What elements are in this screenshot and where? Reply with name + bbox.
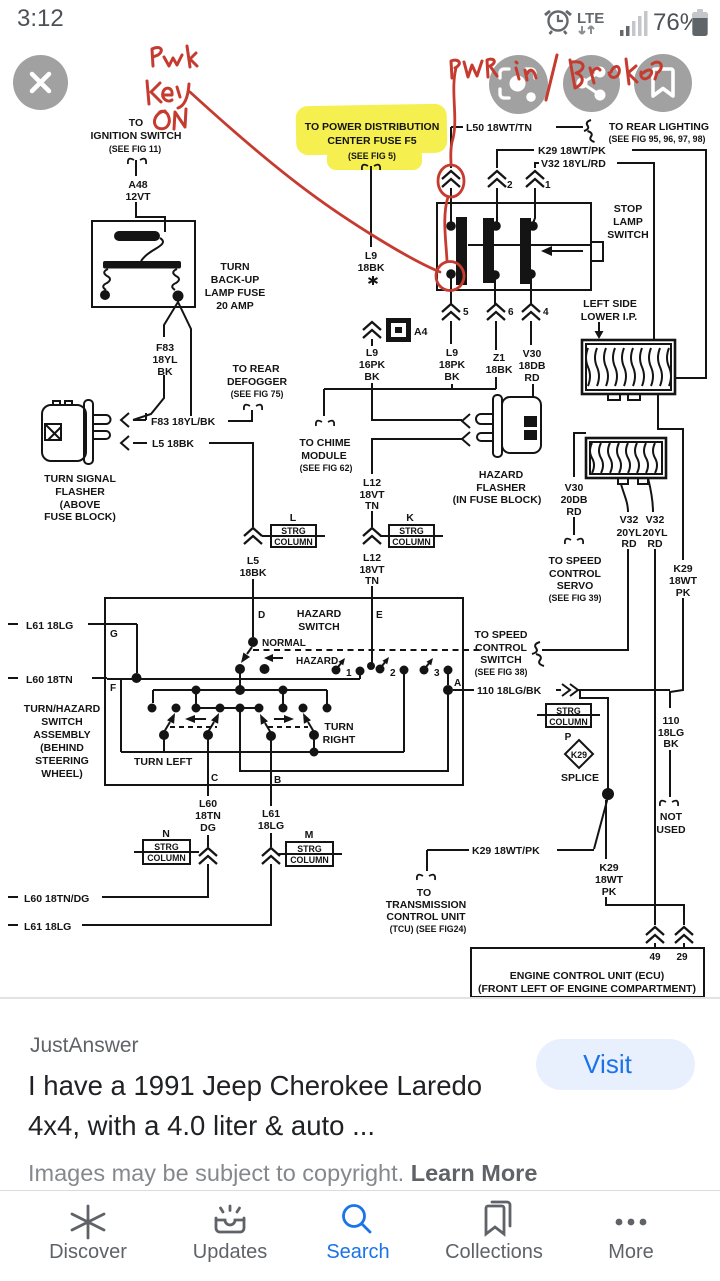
label: to chime module	[299, 437, 352, 473]
label: left side lower IP	[581, 298, 637, 323]
wire V32 18YL/RD from switch	[535, 163, 539, 168]
svg-text:FLASHER: FLASHER	[55, 486, 105, 498]
svg-text:SWITCH: SWITCH	[480, 654, 521, 666]
turn left arm 2 (C pole)	[203, 713, 219, 740]
wire from hazard contact 1 to row 1	[359, 671, 361, 679]
svg-text:CONTROL: CONTROL	[549, 568, 601, 580]
wire K29 18WT/PK to TCU	[427, 849, 594, 851]
wire L5 18BK row	[133, 442, 147, 444]
connector L on L5 wire	[244, 528, 262, 544]
contact dot E	[367, 662, 375, 670]
svg-text:18WT: 18WT	[595, 874, 624, 886]
turn right arm 1 (B pole)	[260, 714, 276, 741]
svg-text:BK: BK	[444, 371, 460, 383]
wire label L60 18TN/DG row	[8, 893, 89, 905]
wire B to L61 row	[82, 864, 271, 925]
actuator tab	[591, 242, 603, 261]
connector on flasher pin 1	[121, 413, 129, 427]
svg-text:K: K	[406, 512, 414, 524]
turn signal flasher body	[42, 405, 86, 461]
red slash	[546, 55, 557, 100]
lower IP connector block 2	[586, 438, 666, 484]
svg-text:PK: PK	[602, 886, 617, 898]
svg-text:K29: K29	[571, 750, 587, 760]
hazard contact pair 3	[420, 658, 453, 675]
wire E into switch	[371, 598, 373, 664]
wire L50 to stop lamp switch	[451, 127, 463, 168]
svg-text:B: B	[274, 775, 281, 786]
svg-text:L60 18TN: L60 18TN	[26, 674, 73, 686]
svg-text:18YL: 18YL	[152, 354, 178, 366]
connector 6	[487, 304, 505, 320]
svg-text:4: 4	[543, 307, 549, 318]
wire L9 from power distribution	[370, 166, 372, 247]
svg-text:TURN/HAZARD: TURN/HAZARD	[24, 703, 101, 715]
flasher pin 2	[93, 431, 110, 439]
wire label L9 18BK	[358, 250, 385, 274]
red handwriting Pwr	[152, 46, 197, 67]
svg-text:F83 18YL/BK: F83 18YL/BK	[151, 416, 216, 428]
label: turn right	[323, 721, 356, 746]
wire label L61 18LG row	[8, 921, 71, 933]
svg-text:TO SPEED: TO SPEED	[475, 629, 528, 641]
red circle around switch dot	[436, 262, 464, 291]
svg-text:L12: L12	[363, 477, 381, 489]
fuse terminal dot left	[100, 290, 110, 300]
wire stubs into ECU	[655, 943, 684, 948]
connector to power distribution center	[362, 165, 380, 170]
wire into fuse box	[136, 202, 165, 222]
wire from junction down	[605, 800, 607, 859]
label: to speed control switch	[475, 629, 528, 677]
svg-text:LAMP FUSE: LAMP FUSE	[205, 287, 265, 299]
svg-text:2: 2	[507, 180, 513, 191]
wire stub not used	[669, 750, 671, 797]
wire 110 to not-used stub	[578, 689, 670, 691]
svg-text:RD: RD	[566, 506, 582, 518]
svg-text:SPLICE: SPLICE	[561, 772, 599, 784]
splice symbol K29	[565, 740, 593, 768]
svg-text:HAZARD: HAZARD	[297, 608, 342, 620]
connector C on L9 wire	[363, 322, 381, 338]
svg-text:5: 5	[463, 307, 469, 318]
wire L12 into hazard switch E	[371, 586, 373, 598]
svg-text:L60: L60	[199, 798, 217, 810]
wire B down from pole	[270, 740, 272, 785]
turn/hazard switch assembly box	[105, 598, 463, 785]
label: to rear lighting	[609, 121, 709, 144]
junction dot on bottom row	[310, 748, 319, 757]
connector ECU pin 29	[675, 927, 693, 943]
svg-text:P: P	[565, 732, 572, 743]
bottom result card	[0, 998, 720, 1190]
svg-text:COLUMN: COLUMN	[290, 855, 329, 865]
svg-text:RIGHT: RIGHT	[323, 734, 356, 746]
label: not used	[656, 811, 686, 836]
wire from D contact to row 2	[239, 673, 241, 686]
svg-text:ASSEMBLY: ASSEMBLY	[33, 729, 90, 741]
svg-text:SWITCH: SWITCH	[41, 716, 82, 728]
svg-text:LTE: LTE	[577, 10, 604, 27]
svg-text:18BK: 18BK	[240, 567, 267, 579]
svg-text:(FRONT LEFT OF ENGINE COMPARTM: (FRONT LEFT OF ENGINE COMPARTMENT)	[478, 983, 696, 995]
svg-text:HAZARD: HAZARD	[296, 656, 338, 667]
svg-text:STRG: STRG	[154, 842, 179, 852]
bottom navigation	[0, 1190, 720, 1281]
svg-text:20 AMP: 20 AMP	[216, 300, 254, 312]
lens button	[489, 55, 548, 114]
dashed travel line hazard row	[253, 649, 480, 651]
hazard flasher pin 2	[477, 433, 493, 441]
svg-text:G: G	[110, 629, 118, 640]
svg-text:(SEE FIG 39): (SEE FIG 39)	[549, 593, 602, 603]
wire label F83 18YL BK (vertical run)	[152, 342, 178, 378]
wire F83 from fuse to flasher	[133, 296, 178, 420]
svg-text:CENTER FUSE F5: CENTER FUSE F5	[327, 135, 416, 147]
svg-text:STEERING: STEERING	[35, 755, 89, 767]
svg-text:(SEE FIG 5): (SEE FIG 5)	[348, 151, 396, 161]
svg-text:29: 29	[676, 952, 688, 963]
connector for hazard flasher pin 2	[462, 432, 470, 446]
wire C to L60 row	[102, 864, 208, 897]
svg-text:110 18LG/BK: 110 18LG/BK	[477, 685, 542, 697]
svg-text:CONTROL UNIT: CONTROL UNIT	[386, 911, 466, 923]
svg-text:CONTROL: CONTROL	[475, 642, 527, 654]
svg-text:A48: A48	[128, 179, 147, 191]
steering column pass-through N	[134, 828, 199, 864]
normal position dot	[260, 664, 270, 674]
svg-text:(TCU) (SEE FIG24): (TCU) (SEE FIG24)	[390, 924, 467, 934]
svg-text:TO: TO	[417, 887, 431, 899]
wires out of switch bottom	[451, 274, 531, 305]
wire V32 to lower IP connector top	[617, 163, 654, 340]
connector 2 on switch wire	[488, 171, 506, 187]
svg-text:STOP: STOP	[614, 203, 642, 215]
wire branch down to splice	[580, 690, 608, 789]
svg-text:Z1: Z1	[493, 352, 505, 364]
svg-text:D: D	[258, 610, 265, 621]
wire B to L61 chevron	[270, 785, 272, 847]
switch terminal dots bottom	[446, 269, 456, 279]
connector N on C wire	[199, 848, 217, 864]
red handwriting Brake?	[570, 59, 661, 88]
stub arm1 to bottom row	[163, 738, 165, 752]
wire label L9 16PK BK	[359, 347, 386, 383]
connector M on B wire	[262, 848, 280, 864]
connector to speed control switch	[532, 642, 544, 666]
svg-text:C: C	[211, 773, 218, 784]
connector 1 on switch wire	[526, 171, 544, 187]
svg-text:(IN FUSE BLOCK): (IN FUSE BLOCK)	[453, 494, 542, 506]
wire from F83 row to rear defogger	[228, 410, 252, 421]
row 2 wire	[153, 690, 327, 704]
wire F83 18YL/BK row	[133, 413, 146, 420]
svg-text:ENGINE CONTROL UNIT (ECU): ENGINE CONTROL UNIT (ECU)	[510, 970, 664, 982]
red link between circles	[445, 197, 448, 261]
svg-text:TURN: TURN	[220, 261, 249, 273]
svg-text:TO CHIME: TO CHIME	[299, 437, 350, 449]
svg-text:LOWER I.P.: LOWER I.P.	[581, 311, 637, 323]
svg-text:STRG: STRG	[281, 526, 306, 536]
connector to ignition switch (see fig 11)	[128, 159, 146, 164]
svg-text:TN: TN	[365, 575, 379, 587]
svg-text:L61 18LG: L61 18LG	[24, 921, 71, 933]
turn left arm 1	[159, 713, 175, 740]
svg-text:L9: L9	[365, 250, 377, 262]
connector 4	[522, 304, 540, 320]
label: to transmission control unit	[386, 887, 467, 934]
wire label L12 18VT TN below connector	[359, 552, 385, 587]
svg-text:TO: TO	[129, 117, 143, 129]
connector 3 on L50 wire	[442, 171, 460, 187]
wire from lower IP connector bottom	[658, 394, 683, 560]
svg-text:RD: RD	[647, 538, 663, 550]
svg-text:18DB: 18DB	[519, 360, 546, 372]
red wavy line down from PWR	[451, 68, 456, 164]
normal switch arm with arrow	[241, 647, 252, 663]
wire G down to row 1	[136, 624, 138, 673]
svg-text:COLUMN: COLUMN	[274, 537, 313, 547]
svg-text:K29: K29	[599, 862, 618, 874]
switch terminal dots top	[446, 221, 456, 231]
connector to speed control servo	[565, 539, 583, 544]
wire C to L60 chevron	[207, 785, 209, 847]
terminal dot A	[443, 685, 453, 695]
svg-text:K29: K29	[673, 563, 692, 575]
svg-text:18TN: 18TN	[195, 810, 221, 822]
svg-text:V32: V32	[646, 514, 665, 526]
turn right arm 2	[303, 713, 319, 740]
fuse F4 box: turn back-up lamp fuse	[92, 221, 195, 307]
fuse element squiggle	[141, 222, 165, 261]
svg-text:L5 18BK: L5 18BK	[152, 438, 194, 450]
wire branch from fuse to F83 18YL/BK row	[178, 302, 191, 416]
connector K on L12 wire	[363, 528, 381, 544]
wire L5 to hazard switch D	[209, 443, 253, 527]
svg-text:16PK: 16PK	[359, 359, 386, 371]
stop lamp switch box	[437, 203, 591, 290]
stub arm to bottom row	[313, 738, 315, 752]
yellow highlight marker	[296, 104, 448, 170]
connector to rear defogger	[244, 405, 262, 410]
wire L5 into hazard switch D	[252, 579, 254, 598]
wire V30 18DB RD below connector 4	[531, 321, 533, 397]
stubs row2 to contacts	[196, 690, 283, 704]
svg-text:TRANSMISSION: TRANSMISSION	[386, 899, 467, 911]
svg-text:F83: F83	[156, 342, 174, 354]
svg-text:E: E	[376, 610, 383, 621]
steering column pass-through P	[537, 704, 600, 743]
steering column pass-through L	[262, 512, 325, 547]
wire V32 right from connector 2	[648, 478, 653, 512]
wire label 110 18LG BK	[658, 715, 684, 750]
fuse top contact bar	[114, 231, 160, 241]
wire label L9 18PK BK	[439, 347, 466, 383]
bus wire joining L9 L9 Z1	[324, 388, 496, 390]
wire from hazard contact 2 to bottom row	[403, 673, 405, 752]
switch contact bar 3	[520, 218, 531, 284]
svg-text:IGNITION SWITCH: IGNITION SWITCH	[91, 130, 182, 142]
svg-text:USED: USED	[656, 824, 686, 836]
wire label L5 18BK above switch	[240, 555, 267, 579]
wire from contact 240 to terminal A loop	[240, 694, 448, 771]
svg-text:12VT: 12VT	[125, 191, 151, 203]
svg-text:TURN SIGNAL: TURN SIGNAL	[44, 473, 116, 485]
svg-text:L: L	[290, 512, 297, 524]
wire F inside box	[120, 679, 122, 752]
svg-text:K29 18WT/PK: K29 18WT/PK	[538, 145, 606, 157]
wire K29 to lower IP connector	[632, 150, 706, 378]
wire label V30 20DB RD	[561, 482, 588, 518]
svg-text:FLASHER: FLASHER	[476, 482, 526, 494]
wire label L12 18VT TN	[359, 477, 385, 512]
share button	[563, 55, 620, 112]
actuator arrow	[541, 246, 583, 256]
switch contact bar 1	[456, 217, 467, 285]
wire label L61 18LG	[258, 808, 284, 832]
connector on flasher pin 2	[121, 436, 129, 450]
svg-text:N: N	[162, 828, 170, 840]
svg-text:BACK-UP: BACK-UP	[211, 274, 259, 286]
turn left direction arrow	[185, 715, 206, 723]
normal direction arrow	[264, 654, 283, 662]
contact dot D	[248, 637, 258, 647]
svg-text:TURN: TURN	[324, 721, 353, 733]
contact dots row 3	[148, 704, 332, 713]
wire label A48 12VT	[125, 179, 151, 203]
label: hazard switch	[297, 608, 342, 633]
svg-text:RD: RD	[524, 372, 540, 384]
wire L12 from hazard flasher pin 2	[372, 439, 462, 474]
label: turn/hazard switch assembly	[24, 703, 101, 780]
svg-text:(BEHIND: (BEHIND	[40, 742, 84, 754]
label: to rear defogger	[227, 363, 288, 399]
svg-text:MODULE: MODULE	[301, 450, 347, 462]
connector to TCU	[417, 875, 435, 880]
svg-text:M: M	[305, 829, 314, 841]
status bar	[0, 0, 720, 40]
svg-text:3: 3	[434, 668, 440, 679]
svg-text:TO POWER DISTRIBUTION: TO POWER DISTRIBUTION	[305, 121, 440, 133]
connector end not used	[660, 801, 678, 806]
svg-text:TO SPEED: TO SPEED	[549, 555, 602, 567]
svg-text:NORMAL: NORMAL	[262, 638, 306, 649]
connector arrows on 110 wire	[562, 684, 578, 696]
svg-text:F: F	[110, 683, 116, 694]
svg-text:STRG: STRG	[556, 706, 581, 716]
svg-text:49: 49	[649, 952, 661, 963]
hazard contact pair 1	[332, 658, 365, 676]
wire C down from pole	[207, 739, 209, 785]
fuse coil left	[103, 269, 110, 290]
steering column pass-through M	[277, 829, 342, 866]
wire labels V32 20YL RD	[616, 514, 668, 550]
turn right direction arrow	[274, 715, 294, 723]
row 1 wire	[107, 678, 360, 680]
fuse middle bar	[103, 261, 181, 269]
svg-text:LAMP: LAMP	[613, 216, 643, 228]
lower IP connector block 1	[582, 340, 675, 400]
fuse terminal dot right	[173, 291, 184, 302]
svg-text:STRG: STRG	[297, 844, 322, 854]
wire label Z1 18BK	[486, 352, 513, 376]
wire V32 to speed control switch	[542, 549, 628, 650]
wire label V30 18DB RD	[519, 348, 546, 384]
node: TO IGNITION SWITCH label	[91, 117, 182, 154]
svg-text:A: A	[454, 678, 461, 689]
wire D into switch	[252, 598, 254, 637]
label: to power distribution center fuse F5	[305, 121, 440, 161]
svg-text:L61: L61	[262, 808, 280, 820]
wire K29 down to junction with 110 line	[670, 598, 683, 708]
svg-text:L9: L9	[446, 347, 458, 359]
svg-text:DG: DG	[200, 822, 216, 834]
svg-text:FUSE BLOCK): FUSE BLOCK)	[44, 511, 116, 523]
red line from key to stop lamp switch	[190, 92, 440, 272]
bookmark button	[634, 54, 692, 112]
svg-text:20DB: 20DB	[561, 494, 588, 506]
svg-text:RD: RD	[621, 538, 637, 550]
wire into stop lamp switch pin	[450, 188, 452, 223]
junction dot on K29 wire	[602, 788, 614, 800]
wire branch to chime module	[323, 389, 325, 416]
engine control unit box	[471, 948, 704, 997]
svg-text:TURN LEFT: TURN LEFT	[134, 756, 193, 768]
wire 110 18LG/BK from A	[453, 689, 561, 691]
svg-text:V30: V30	[565, 482, 584, 494]
flasher pin 1	[93, 415, 111, 424]
red handwriting ON	[154, 109, 186, 129]
flasher mounting plate	[84, 400, 93, 464]
svg-text:BK: BK	[157, 366, 173, 378]
splice A4 symbol	[386, 318, 411, 342]
label: stop lamp switch	[607, 203, 648, 241]
label: hazard flasher	[453, 469, 542, 506]
wire V32 to ECU pin 49	[654, 549, 656, 925]
svg-text:A4: A4	[414, 326, 428, 338]
svg-text:TN: TN	[365, 500, 379, 512]
svg-text:COLUMN: COLUMN	[549, 717, 588, 727]
junction dot G on row 1	[132, 673, 142, 683]
switch actuator rod	[468, 244, 591, 246]
wire Z1 18BK below connector 6	[495, 321, 497, 389]
dashed travel line turn-left	[170, 726, 217, 728]
wire to speed control servo	[573, 517, 575, 535]
wire F entry	[8, 677, 107, 679]
steering column pass-through K	[380, 512, 443, 547]
svg-text:(SEE FIG 62): (SEE FIG 62)	[300, 463, 353, 473]
svg-text:L60 18TN/DG: L60 18TN/DG	[24, 893, 89, 905]
row 3 connecting segment	[196, 707, 259, 709]
svg-text:DEFOGGER: DEFOGGER	[227, 376, 288, 388]
svg-text:BK: BK	[663, 738, 679, 750]
svg-text:(SEE FIG 38): (SEE FIG 38)	[475, 667, 528, 677]
switch contact bar 2	[483, 218, 494, 283]
wire into switch pins 2 and 1	[497, 188, 535, 223]
wire L9 below splice	[371, 339, 373, 389]
svg-text:LEFT SIDE: LEFT SIDE	[583, 298, 637, 310]
svg-text:SERVO: SERVO	[557, 580, 594, 592]
close button	[13, 55, 68, 110]
svg-text:L12: L12	[363, 552, 381, 564]
wire label K29 18WT PK right column	[669, 563, 698, 599]
svg-text:SWITCH: SWITCH	[298, 621, 339, 633]
label: turn signal flasher	[44, 473, 116, 523]
wire K29 18WT/PK from switch	[497, 150, 534, 168]
off-page asterisk	[369, 276, 378, 285]
wire to rear lighting	[556, 126, 583, 128]
hazard flasher contacts	[524, 416, 537, 427]
